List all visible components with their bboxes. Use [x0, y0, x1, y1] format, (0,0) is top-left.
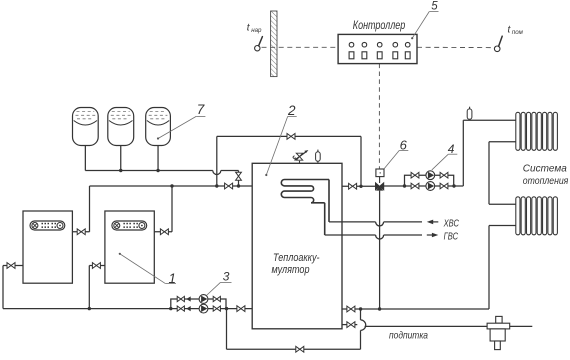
- svg-text:пом: пом: [512, 29, 524, 36]
- svg-text:Контроллер: Контроллер: [353, 18, 406, 32]
- svg-text:1: 1: [169, 271, 177, 286]
- svg-text:5: 5: [431, 0, 438, 12]
- svg-text:ГВС: ГВС: [444, 232, 459, 243]
- svg-text:Система: Система: [523, 163, 567, 175]
- svg-text:4: 4: [448, 142, 455, 156]
- svg-text:6: 6: [400, 137, 408, 152]
- svg-text:Теплоакку-: Теплоакку-: [273, 252, 320, 264]
- svg-text:нар: нар: [251, 27, 262, 34]
- svg-text:3: 3: [223, 269, 230, 283]
- svg-text:отопления: отопления: [523, 175, 569, 187]
- svg-text:мулятор: мулятор: [272, 264, 310, 276]
- svg-text:2: 2: [287, 103, 296, 118]
- svg-text:ХВС: ХВС: [443, 219, 460, 230]
- svg-text:7: 7: [197, 102, 205, 117]
- svg-text:подпитка: подпитка: [389, 329, 428, 341]
